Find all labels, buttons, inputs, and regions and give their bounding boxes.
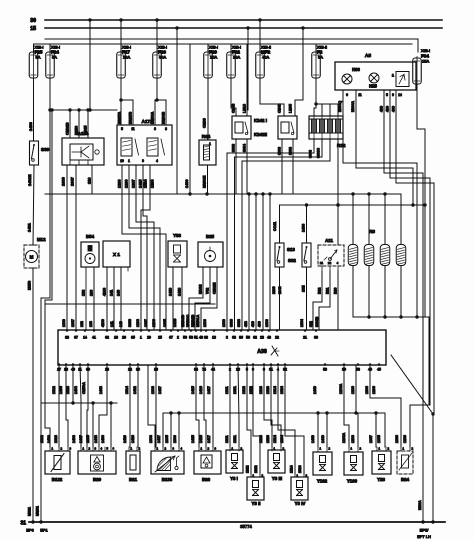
svg-text:1304: 1304 xyxy=(280,435,284,443)
svg-text:1312: 1312 xyxy=(52,386,56,394)
svg-text:4: 4 xyxy=(337,261,339,265)
svg-text:EP6: EP6 xyxy=(26,528,34,533)
svg-text:MM01B: MM01B xyxy=(191,314,195,327)
svg-text:15A: 15A xyxy=(210,55,217,60)
svg-text:21: 21 xyxy=(320,261,324,265)
svg-text:A104: A104 xyxy=(78,131,89,136)
svg-text:1406: 1406 xyxy=(59,386,63,394)
svg-text:5: 5 xyxy=(386,93,388,97)
svg-text:X2B-I: X2B-I xyxy=(421,49,430,53)
svg-text:400: 400 xyxy=(258,321,262,327)
svg-text:141B: 141B xyxy=(173,318,177,327)
svg-text:LM05: LM05 xyxy=(289,104,293,113)
svg-text:M250: M250 xyxy=(28,281,32,290)
svg-text:B122: B122 xyxy=(52,477,63,482)
svg-text:480: 480 xyxy=(251,321,255,327)
svg-text:LM18: LM18 xyxy=(243,104,247,113)
svg-text:5: 5 xyxy=(121,127,123,131)
svg-text:822: 822 xyxy=(309,321,313,327)
svg-text:1409: 1409 xyxy=(47,435,51,443)
svg-text:31: 31 xyxy=(20,521,26,527)
svg-text:1449: 1449 xyxy=(313,386,317,394)
svg-text:33: 33 xyxy=(204,336,208,340)
svg-text:EP5/: EP5/ xyxy=(420,528,430,533)
svg-text:1312: 1312 xyxy=(40,435,44,443)
svg-text:Y3 III: Y3 III xyxy=(272,476,282,481)
svg-text:H25: H25 xyxy=(369,84,377,89)
svg-text:53: 53 xyxy=(189,336,193,340)
svg-text:1: 1 xyxy=(320,447,322,451)
svg-text:CM40: CM40 xyxy=(232,104,236,113)
svg-text:8: 8 xyxy=(165,127,167,131)
svg-text:1447: 1447 xyxy=(79,435,83,443)
svg-text:45: 45 xyxy=(377,368,381,372)
svg-text:BM06B: BM06B xyxy=(162,111,166,124)
svg-text:B21: B21 xyxy=(129,477,138,482)
svg-text:85: 85 xyxy=(131,336,135,340)
svg-text:1306: 1306 xyxy=(365,386,369,394)
svg-text:41: 41 xyxy=(92,336,96,340)
svg-text:9: 9 xyxy=(392,93,394,97)
svg-text:1408: 1408 xyxy=(72,435,76,443)
svg-text:MM01E: MM01E xyxy=(203,175,207,188)
svg-text:1449: 1449 xyxy=(321,435,325,443)
svg-text:1440: 1440 xyxy=(311,435,315,443)
svg-text:K242 I: K242 I xyxy=(254,118,267,123)
svg-text:1: 1 xyxy=(52,447,54,451)
svg-text:1524: 1524 xyxy=(144,179,148,188)
svg-text:1: 1 xyxy=(131,447,133,451)
svg-text:1427: 1427 xyxy=(157,435,161,443)
svg-text:8034: 8034 xyxy=(243,144,247,152)
svg-text:1305: 1305 xyxy=(377,435,381,443)
svg-text:BM27B: BM27B xyxy=(129,111,133,124)
svg-text:51: 51 xyxy=(194,336,198,340)
svg-text:M004Q: M004Q xyxy=(338,101,342,112)
svg-text:1415: 1415 xyxy=(191,386,195,394)
svg-text:A38: A38 xyxy=(257,349,267,355)
svg-text:26: 26 xyxy=(122,336,126,340)
svg-text:25: 25 xyxy=(158,336,162,340)
svg-text:2: 2 xyxy=(177,336,179,340)
svg-text:132: 132 xyxy=(80,321,84,327)
svg-text:4: 4 xyxy=(101,447,103,451)
svg-text:4: 4 xyxy=(181,447,183,451)
svg-text:3: 3 xyxy=(226,336,228,340)
svg-text:10: 10 xyxy=(114,336,118,340)
svg-text:B22: B22 xyxy=(318,288,322,294)
svg-text:1313: 1313 xyxy=(54,435,58,443)
svg-text:1205: 1205 xyxy=(163,319,167,327)
svg-text:1400: 1400 xyxy=(28,121,33,131)
svg-text:1417: 1417 xyxy=(207,435,211,443)
svg-text:22: 22 xyxy=(328,261,332,265)
svg-text:1380: 1380 xyxy=(222,319,226,327)
svg-text:1322: 1322 xyxy=(249,386,253,394)
svg-text:1214: 1214 xyxy=(273,435,277,443)
svg-text:22: 22 xyxy=(275,336,279,340)
svg-text:15A: 15A xyxy=(422,59,429,64)
svg-text:1313: 1313 xyxy=(66,386,70,394)
svg-text:1387: 1387 xyxy=(71,319,75,327)
svg-text:1307: 1307 xyxy=(369,435,373,443)
svg-text:Y63: Y63 xyxy=(173,233,181,238)
svg-text:29: 29 xyxy=(147,336,151,340)
svg-text:K242II: K242II xyxy=(254,132,267,137)
svg-text:43: 43 xyxy=(199,336,203,340)
svg-text:5A: 5A xyxy=(52,55,57,60)
svg-text:14: 14 xyxy=(398,93,402,97)
svg-text:2160: 2160 xyxy=(272,286,276,294)
svg-text:118: 118 xyxy=(87,177,92,184)
svg-text:4280: 4280 xyxy=(103,288,107,296)
svg-text:1211: 1211 xyxy=(225,386,229,394)
svg-text:30: 30 xyxy=(30,18,36,24)
svg-text:M: M xyxy=(30,255,34,260)
svg-text:1439: 1439 xyxy=(101,435,105,443)
svg-text:1: 1 xyxy=(83,447,85,451)
svg-text:1286: 1286 xyxy=(351,386,355,394)
svg-text:8038: 8038 xyxy=(237,319,241,327)
svg-text:M20A: M20A xyxy=(418,500,422,510)
svg-text:1236: 1236 xyxy=(403,435,407,443)
svg-text:438: 438 xyxy=(244,321,248,327)
svg-text:53: 53 xyxy=(356,368,360,372)
svg-text:1380: 1380 xyxy=(61,176,66,186)
svg-text:A5: A5 xyxy=(365,53,371,59)
svg-text:40A: 40A xyxy=(262,55,269,60)
svg-text:1448: 1448 xyxy=(99,386,103,394)
svg-text:V02: V02 xyxy=(206,288,210,294)
svg-text:140: 140 xyxy=(119,321,123,327)
svg-text:3: 3 xyxy=(154,127,156,131)
svg-text:1416: 1416 xyxy=(199,435,203,443)
svg-text:2: 2 xyxy=(208,447,210,451)
svg-text:1: 1 xyxy=(128,159,130,163)
svg-text:1288A: 1288A xyxy=(342,432,346,443)
svg-text:Y100: Y100 xyxy=(347,479,358,484)
svg-text:B24: B24 xyxy=(401,477,410,482)
svg-text:8036: 8036 xyxy=(230,319,234,327)
svg-text:EP7 LH: EP7 LH xyxy=(417,534,431,539)
svg-text:1214: 1214 xyxy=(290,465,294,473)
svg-text:400: 400 xyxy=(392,106,396,112)
svg-text:1336: 1336 xyxy=(395,435,399,443)
svg-text:141: 141 xyxy=(110,290,114,296)
svg-text:132: 132 xyxy=(82,290,86,296)
svg-text:1: 1 xyxy=(140,336,142,340)
svg-text:CM50A: CM50A xyxy=(82,382,86,394)
svg-text:1: 1 xyxy=(157,447,159,451)
svg-text:21: 21 xyxy=(303,336,307,340)
svg-text:EP1: EP1 xyxy=(40,528,48,533)
svg-text:1208: 1208 xyxy=(136,319,140,327)
svg-text:R8: R8 xyxy=(369,229,375,234)
svg-text:2: 2 xyxy=(329,447,331,451)
svg-text:1403: 1403 xyxy=(302,224,306,232)
svg-text:11: 11 xyxy=(131,127,135,131)
svg-text:CM32M: CM32M xyxy=(213,282,217,294)
svg-text:CM30: CM30 xyxy=(203,118,207,128)
svg-text:B54: B54 xyxy=(86,234,95,239)
svg-text:4280: 4280 xyxy=(101,319,105,327)
svg-text:1427: 1427 xyxy=(158,386,162,394)
svg-text:1: 1 xyxy=(351,447,353,451)
svg-text:B26: B26 xyxy=(202,477,211,482)
svg-text:1321: 1321 xyxy=(233,386,237,394)
svg-text:5: 5 xyxy=(107,447,109,451)
svg-text:67: 67 xyxy=(74,336,78,340)
svg-text:1323: 1323 xyxy=(266,435,270,443)
svg-text:2: 2 xyxy=(360,447,362,451)
svg-text:23: 23 xyxy=(260,336,264,340)
svg-text:M1G2: M1G2 xyxy=(199,284,203,294)
svg-text:S82: S82 xyxy=(288,258,296,263)
svg-text:1322: 1322 xyxy=(254,465,258,473)
svg-text:1415: 1415 xyxy=(139,180,143,188)
svg-text:58: 58 xyxy=(323,368,327,372)
svg-text:1422: 1422 xyxy=(133,386,137,394)
svg-text:1418: 1418 xyxy=(178,288,182,296)
svg-text:Y3 II: Y3 II xyxy=(251,501,260,506)
svg-text:B20: B20 xyxy=(334,288,338,294)
svg-text:133: 133 xyxy=(89,321,93,327)
svg-text:1420: 1420 xyxy=(123,435,127,443)
svg-text:1: 1 xyxy=(392,74,394,78)
svg-text:B20: B20 xyxy=(93,477,102,482)
svg-text:Y3 I: Y3 I xyxy=(230,476,238,481)
svg-text:1: 1 xyxy=(201,447,203,451)
svg-text:B25: B25 xyxy=(206,234,215,239)
svg-text:8006B: 8006B xyxy=(315,316,319,327)
svg-text:1206: 1206 xyxy=(372,386,376,394)
svg-text:1324: 1324 xyxy=(280,386,284,394)
svg-text:14: 14 xyxy=(83,336,87,340)
svg-text:H63: H63 xyxy=(352,67,360,72)
svg-text:436: 436 xyxy=(380,106,384,112)
svg-text:1400: 1400 xyxy=(185,180,189,188)
svg-text:1448: 1448 xyxy=(94,435,98,443)
svg-text:1380: 1380 xyxy=(203,319,207,327)
svg-text:62: 62 xyxy=(105,336,109,340)
svg-text:1314: 1314 xyxy=(125,386,129,394)
svg-text:1393: 1393 xyxy=(149,435,153,443)
svg-text:1209: 1209 xyxy=(125,180,129,188)
svg-text:8033: 8033 xyxy=(289,147,293,155)
svg-text:1390: 1390 xyxy=(173,435,177,443)
svg-text:1212: 1212 xyxy=(246,465,250,473)
svg-text:48: 48 xyxy=(267,336,271,340)
svg-text:8036: 8036 xyxy=(128,319,132,327)
svg-text:1323: 1323 xyxy=(266,386,270,394)
svg-text:6: 6 xyxy=(113,447,115,451)
svg-text:Y3 IV: Y3 IV xyxy=(295,501,306,506)
svg-text:1213: 1213 xyxy=(259,386,263,394)
svg-text:10: 10 xyxy=(120,159,124,163)
svg-text:1393: 1393 xyxy=(151,386,155,394)
svg-text:R64: R64 xyxy=(202,134,211,139)
svg-text:2048: 2048 xyxy=(278,286,282,294)
svg-text:2: 2 xyxy=(388,447,390,451)
svg-text:1335: 1335 xyxy=(86,435,90,443)
svg-text:141: 141 xyxy=(110,321,114,327)
svg-text:1: 1 xyxy=(379,447,381,451)
svg-text:20A: 20A xyxy=(123,55,130,60)
svg-text:1417: 1417 xyxy=(207,386,211,394)
svg-text:86: 86 xyxy=(239,336,243,340)
svg-text:1321: 1321 xyxy=(233,435,237,443)
svg-text:B138: B138 xyxy=(162,477,173,482)
svg-text:CM48: CM48 xyxy=(278,104,282,113)
svg-text:2: 2 xyxy=(139,447,141,451)
svg-text:1288A: 1288A xyxy=(339,383,343,394)
svg-text:MM01A: MM01A xyxy=(196,314,200,327)
svg-text:MM01D: MM01D xyxy=(181,314,185,327)
svg-text:A171: A171 xyxy=(142,119,153,124)
svg-text:56: 56 xyxy=(246,336,250,340)
svg-text:2: 2 xyxy=(165,447,167,451)
svg-text:1213: 1213 xyxy=(259,435,263,443)
svg-text:36: 36 xyxy=(314,336,318,340)
svg-text:1380: 1380 xyxy=(62,319,66,327)
svg-text:1214: 1214 xyxy=(273,386,277,394)
svg-text:X 1: X 1 xyxy=(113,252,120,257)
svg-text:1419: 1419 xyxy=(169,288,173,296)
svg-text:1207: 1207 xyxy=(144,319,148,327)
svg-text:30A: 30A xyxy=(159,55,166,60)
svg-text:3: 3 xyxy=(215,447,217,451)
svg-text:11: 11 xyxy=(358,93,362,97)
svg-text:1408: 1408 xyxy=(74,386,78,394)
svg-text:MM01C: MM01C xyxy=(186,314,190,327)
svg-text:1416: 1416 xyxy=(199,386,203,394)
svg-text:1: 1 xyxy=(403,447,405,451)
svg-text:1395: 1395 xyxy=(165,435,169,443)
svg-text:1415: 1415 xyxy=(191,435,195,443)
svg-text:140: 140 xyxy=(117,290,121,296)
svg-text:2: 2 xyxy=(61,447,63,451)
svg-text:4: 4 xyxy=(156,159,158,163)
svg-text:13: 13 xyxy=(212,336,216,340)
svg-text:M004A: M004A xyxy=(351,101,355,112)
svg-text:1: 1 xyxy=(209,142,211,146)
svg-text:88: 88 xyxy=(65,336,69,340)
svg-text:8006C: 8006C xyxy=(317,147,321,158)
svg-text:S39: S39 xyxy=(41,147,50,152)
svg-text:15: 15 xyxy=(30,26,36,32)
svg-text:1212: 1212 xyxy=(242,386,246,394)
svg-text:1324: 1324 xyxy=(298,465,302,473)
svg-text:M321: M321 xyxy=(28,507,32,516)
svg-text:Y102: Y102 xyxy=(317,479,328,484)
svg-text:6: 6 xyxy=(346,93,348,97)
svg-text:1298: 1298 xyxy=(151,180,155,188)
svg-text:35774: 35774 xyxy=(240,524,252,529)
svg-text:1421: 1421 xyxy=(27,222,32,232)
svg-text:3: 3 xyxy=(173,447,175,451)
svg-text:Y28: Y28 xyxy=(377,477,385,482)
svg-text:62: 62 xyxy=(253,336,257,340)
svg-text:8006: 8006 xyxy=(278,147,282,155)
svg-text:2: 2 xyxy=(89,447,91,451)
svg-text:1426: 1426 xyxy=(131,435,135,443)
svg-text:1297: 1297 xyxy=(132,180,136,188)
svg-text:67: 67 xyxy=(169,336,173,340)
svg-text:CC11: CC11 xyxy=(273,222,277,231)
svg-text:CM62B: CM62B xyxy=(66,122,70,135)
svg-text:1380: 1380 xyxy=(265,319,269,327)
svg-text:133: 133 xyxy=(90,290,94,296)
svg-text:8008: 8008 xyxy=(232,144,236,152)
svg-text:10A: 10A xyxy=(233,55,240,60)
svg-text:3: 3 xyxy=(70,447,72,451)
svg-text:1233: 1233 xyxy=(118,180,122,188)
svg-text:5A: 5A xyxy=(36,55,41,60)
svg-text:1288: 1288 xyxy=(351,435,355,443)
svg-text:2: 2 xyxy=(412,447,414,451)
svg-text:5A: 5A xyxy=(318,55,323,60)
svg-text:1211: 1211 xyxy=(225,435,229,443)
svg-text:50: 50 xyxy=(183,336,187,340)
svg-text:13N: 13N xyxy=(302,285,306,292)
svg-text:1206: 1206 xyxy=(152,319,156,327)
svg-text:MM01: MM01 xyxy=(36,506,40,516)
svg-text:B21: B21 xyxy=(326,288,330,294)
svg-text:9: 9 xyxy=(142,159,144,163)
svg-text:1401E: 1401E xyxy=(27,174,32,186)
svg-text:S13: S13 xyxy=(287,247,295,252)
svg-text:1387: 1387 xyxy=(70,176,75,186)
svg-text:1384: 1384 xyxy=(300,319,304,327)
svg-text:A11: A11 xyxy=(325,238,333,243)
svg-text:BM27A: BM27A xyxy=(118,111,122,124)
svg-text:M12: M12 xyxy=(37,237,46,242)
svg-text:68: 68 xyxy=(232,336,236,340)
svg-text:480: 480 xyxy=(386,106,390,112)
svg-text:3: 3 xyxy=(95,447,97,451)
